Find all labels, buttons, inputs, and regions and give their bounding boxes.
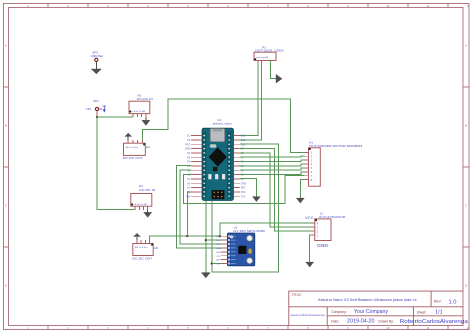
junction VCC rail / J2 VCC [219, 235, 221, 237]
wire [147, 210, 149, 213]
wire LED2 to U1 D11 [233, 63, 261, 139]
ground H4 [144, 213, 152, 218]
ground (battery) [91, 69, 101, 74]
wire [95, 62, 97, 70]
U2 pins + labels [216, 236, 228, 265]
H3 pins [127, 140, 129, 143]
wire U1 to H1 [240, 172, 305, 175]
wire U1 to U2 INT wrap [212, 144, 279, 272]
svg-text:10: 10 [387, 326, 390, 330]
connector P2 OUT-LED1_LED2 [254, 45, 284, 60]
svg-text:TITLE:: TITLE: [292, 293, 302, 297]
svg-text:out sig IN: out sig IN [256, 56, 269, 59]
svg-text:D11: D11 [241, 139, 246, 142]
svg-text:H5: H5 [154, 246, 158, 250]
svg-text:GND: GND [241, 182, 247, 185]
svg-text:11: 11 [427, 4, 430, 8]
wire VIN to H4 pin1 [97, 117, 135, 210]
H2 pins [132, 114, 134, 118]
wire VIN (pin) [96, 111, 98, 117]
svg-text:Your Company: Your Company [354, 309, 389, 315]
svg-text:RobertoCarlosAlvarenga: RobertoCarlosAlvarenga [400, 319, 468, 325]
wire 5V from U1 [187, 192, 191, 236]
svg-text:4B 7s 4.5v+: 4B 7s 4.5v+ [135, 247, 149, 249]
U1 right pins [233, 135, 246, 199]
svg-text:XDA: XDA [216, 251, 221, 254]
pad SP2 GND Bat [91, 50, 104, 61]
P2 pins [257, 61, 259, 64]
svg-text:VIN: VIN [186, 195, 190, 198]
svg-text:SDA: SDA [216, 247, 221, 250]
connector H4 DC-DC IN [131, 184, 156, 206]
svg-text:GY-521 MPU-6050: GY-521 MPU-6050 [233, 229, 265, 233]
wire U1 to H1 [240, 156, 305, 157]
ground P2 (rotated) [276, 74, 282, 83]
ground U2 [201, 273, 210, 278]
wire [136, 237, 138, 240]
connector H1 OUT-DRIVER MOTOR DRV8833 [309, 140, 363, 186]
svg-text:VIN: VIN [86, 107, 91, 111]
wire to U2 pin2 [206, 239, 221, 241]
svg-text:C: C [465, 204, 467, 208]
H4 pins [134, 206, 136, 210]
svg-text:Drawn By:: Drawn By: [378, 319, 394, 323]
wire H1 pin8 GND [300, 180, 304, 199]
wire VCC to J2 pin4 [220, 223, 311, 236]
junction VIN [96, 116, 98, 118]
svg-text:OUT-ULTRASSOM: OUT-ULTRASSOM [319, 215, 346, 219]
wire to U2 pin8 [212, 263, 221, 265]
svg-text:B: B [5, 124, 7, 128]
svg-text:A: A [5, 44, 7, 48]
wire SDA U1 to U2 [177, 166, 222, 248]
wire LED1 to U1 D12 [233, 63, 258, 135]
svg-text:easyeda.com/RobertoCarlosAlvar: easyeda.com/RobertoCarlosAlvarenga [290, 314, 325, 317]
svg-text:+4.5v 7s 4B: +4.5v 7s 4B [134, 204, 148, 206]
svg-text:VCC: VCC [305, 216, 314, 220]
title block [289, 291, 463, 325]
connector H2 DC-DC IN [129, 94, 153, 114]
J2 pins 4-1 [311, 221, 319, 237]
svg-text:10: 10 [387, 4, 390, 8]
svg-text:GND Bat: GND Bat [91, 54, 104, 58]
svg-text:D: D [5, 284, 7, 288]
svg-text:Sheet:: Sheet: [417, 310, 427, 314]
wire LED gnd [270, 61, 276, 79]
svg-text:DC-DC IN: DC-DC IN [139, 188, 155, 192]
wire GND vertical [205, 201, 207, 273]
wire U1 to H1 [240, 164, 305, 166]
junction VCC rail / 5V [186, 235, 188, 237]
svg-text:RX0: RX0 [241, 191, 246, 194]
svg-text:GND: GND [317, 243, 329, 248]
ground J2 [306, 262, 314, 267]
svg-text:2019-04-20: 2019-04-20 [347, 318, 375, 324]
wire VCC rail [150, 236, 222, 240]
wire H3 out to H1 pin1 [142, 99, 304, 152]
wire U1 to J2 pin2 [240, 148, 311, 231]
svg-text:DC-DC OUT: DC-DC OUT [123, 156, 143, 160]
svg-text:Date:: Date: [331, 319, 339, 323]
junction INT [211, 262, 213, 264]
connector H5 DC-DC OUT [132, 244, 158, 261]
svg-text:GND: GND [185, 148, 191, 151]
wire U1 to H1 [240, 168, 305, 170]
svg-text:A: A [465, 44, 467, 48]
svg-text:Arduino Nano V3 Self Balance U: Arduino Nano V3 Self Balance Ultrasoom p… [318, 298, 417, 302]
svg-text:RST: RST [241, 187, 246, 190]
wire U1 to H1 [240, 160, 305, 161]
connector J2 OUT-ULTRASSOM [305, 211, 346, 248]
wire SCL U1 to U2 [180, 170, 221, 244]
svg-text:D12: D12 [241, 135, 246, 138]
svg-text:RST: RST [185, 143, 190, 146]
svg-text:D: D [465, 284, 467, 288]
ground U1 [253, 197, 261, 202]
VCC flag H5 [133, 233, 141, 237]
U1 left pins [185, 135, 202, 199]
svg-text:SP1: SP1 [93, 99, 99, 103]
svg-text:5V: 5V [187, 178, 190, 181]
svg-text:REV:: REV: [434, 300, 442, 304]
svg-text:Company:: Company: [331, 310, 347, 314]
wire [127, 137, 129, 140]
wire [145, 117, 147, 120]
wire U1 to J2 pin3 [240, 153, 311, 227]
svg-text:12: 12 [467, 4, 470, 8]
svg-text:1/1: 1/1 [435, 309, 443, 315]
svg-text:VCC: VCC [216, 236, 221, 238]
svg-text:+4.5v 7s 4B: +4.5v 7s 4B [132, 111, 146, 113]
connector H3 DC-DC OUT [123, 143, 150, 160]
wire VIN to H2 pin1 [97, 116, 133, 118]
pad SP1 VIN [86, 99, 100, 111]
VCC flag H3 [124, 133, 132, 137]
svg-text:TX1: TX1 [241, 195, 246, 198]
H1 pins 1-8 [305, 151, 313, 182]
wire U1 to H1 pin7 [183, 174, 304, 203]
svg-text:5V: 5V [187, 191, 190, 194]
wire U1 GND [240, 179, 256, 197]
module U2 GY-521 MPU-6050 [228, 226, 266, 266]
svg-text:H3: H3 [146, 145, 150, 149]
svg-text:arduino_nano: arduino_nano [213, 122, 232, 126]
svg-text:1.0: 1.0 [449, 299, 457, 305]
net flag VIN [99, 106, 106, 112]
svg-text:12: 12 [467, 326, 470, 330]
ground H1 [296, 198, 304, 203]
ground H2 [142, 121, 150, 126]
svg-text:B: B [465, 124, 467, 128]
svg-text:4B 7s 4.5v+: 4B 7s 4.5v+ [126, 147, 140, 149]
microcontroller U1 arduino_nano [202, 118, 233, 200]
svg-text:DC-DC OUT: DC-DC OUT [132, 257, 152, 261]
svg-text:DC-DC IN: DC-DC IN [137, 97, 153, 101]
junction GND [205, 239, 207, 241]
svg-text:C: C [5, 204, 7, 208]
wire J2 pin1 GND [310, 235, 311, 262]
svg-text:GND: GND [216, 240, 221, 242]
H5 pins [136, 240, 138, 243]
svg-text:11: 11 [427, 326, 430, 330]
